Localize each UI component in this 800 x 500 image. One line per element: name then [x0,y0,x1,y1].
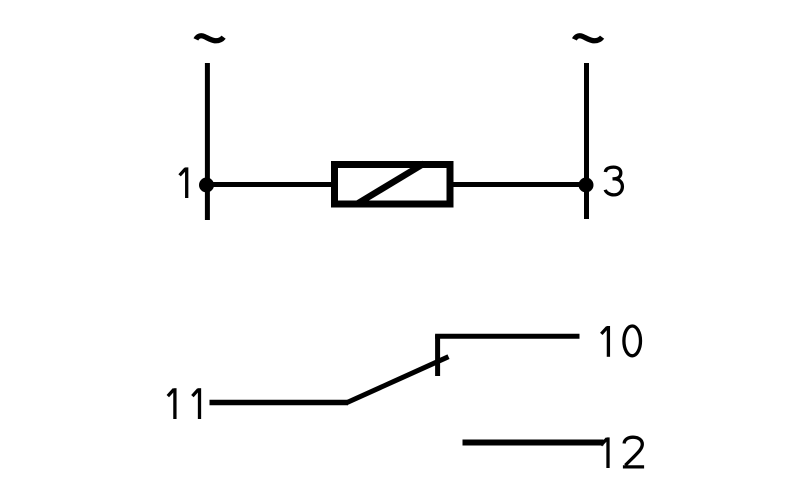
wire: terminal 12 lead [463,440,604,446]
pin label 11 [168,388,200,419]
pin label 10 [601,326,640,357]
wire: terminal 11 lead [210,400,349,406]
AC symbol left (~) [196,36,224,41]
switch movable contact arm [346,357,449,403]
wire: left supply vertical [205,63,210,220]
node 3 junction dot [579,178,594,193]
wire: right supply vertical [584,63,589,219]
wire: terminal 10 lead [435,334,579,339]
node 1 junction dot [199,178,214,193]
pin label 3 [605,167,622,195]
relay coil K1 diagonal [356,164,424,205]
AC symbol right (~) [574,36,602,41]
relay coil K1 body [335,165,451,205]
wire: coil to node 3 [453,182,588,187]
pin label 1 [180,167,187,198]
switch fixed contact tick [435,335,440,376]
wire: node 1 to coil [206,182,332,187]
pin label 12 [601,437,644,468]
